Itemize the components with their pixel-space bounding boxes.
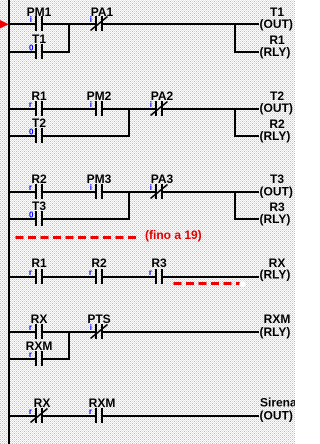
- svg-text:R2: R2: [91, 256, 107, 270]
- svg-text:i: i: [90, 323, 92, 332]
- svg-text:(RLY): (RLY): [260, 268, 291, 282]
- svg-text:R2: R2: [31, 172, 47, 186]
- svg-text:T3: T3: [32, 199, 46, 213]
- svg-text:r: r: [29, 100, 32, 109]
- svg-text:RX: RX: [31, 312, 48, 326]
- svg-text:(RLY): (RLY): [260, 129, 291, 143]
- svg-text:r: r: [29, 350, 32, 359]
- svg-text:T2: T2: [32, 116, 46, 130]
- svg-text:RXM: RXM: [89, 396, 116, 410]
- svg-text:0: 0: [29, 211, 34, 220]
- svg-text:r: r: [29, 183, 32, 192]
- svg-text:R3: R3: [151, 256, 167, 270]
- svg-text:R1: R1: [31, 256, 47, 270]
- svg-text:r: r: [29, 407, 32, 416]
- svg-text:i: i: [90, 183, 92, 192]
- svg-text:0: 0: [29, 128, 34, 137]
- svg-text:R1: R1: [31, 89, 47, 103]
- svg-text:r: r: [149, 268, 152, 277]
- svg-text:i: i: [90, 100, 92, 109]
- svg-text:i: i: [150, 100, 152, 109]
- svg-text:r: r: [29, 323, 32, 332]
- svg-text:r: r: [89, 268, 92, 277]
- svg-text:0: 0: [29, 44, 34, 53]
- svg-text:(RLY): (RLY): [260, 45, 291, 59]
- svg-text:PA2: PA2: [151, 89, 174, 103]
- svg-text:(RLY): (RLY): [260, 212, 291, 226]
- svg-text:(fino a 19): (fino a 19): [145, 228, 202, 242]
- svg-text:r: r: [89, 407, 92, 416]
- svg-text:PA3: PA3: [151, 172, 174, 186]
- svg-text:(OUT): (OUT): [260, 101, 293, 115]
- svg-text:(OUT): (OUT): [260, 17, 293, 31]
- svg-text:(RLY): (RLY): [260, 325, 291, 339]
- svg-text:Sirena: Sirena: [260, 396, 295, 410]
- svg-text:T1: T1: [32, 32, 46, 46]
- svg-text:(OUT): (OUT): [260, 185, 293, 199]
- svg-text:i: i: [30, 15, 32, 24]
- svg-text:RXM: RXM: [264, 312, 291, 326]
- svg-text:(OUT): (OUT): [260, 409, 293, 423]
- svg-text:RX: RX: [34, 396, 51, 410]
- svg-text:i: i: [150, 183, 152, 192]
- svg-text:r: r: [29, 268, 32, 277]
- svg-text:i: i: [90, 15, 92, 24]
- svg-text:PA1: PA1: [91, 5, 114, 19]
